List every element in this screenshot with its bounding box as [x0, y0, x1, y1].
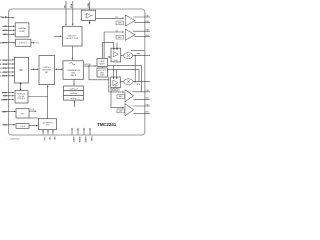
wire CPI — [3, 25, 14, 27]
wire bus to protect — [89, 66, 109, 80]
svg-text:SIN CAL: SIN CAL — [85, 63, 92, 66]
svg-text:1.8V LDO: 1.8V LDO — [19, 43, 28, 45]
wire OA2 out high — [133, 30, 150, 32]
svg-text:SPI: SPI — [19, 70, 23, 72]
wire prot to bridge B — [108, 70, 140, 82]
wire CPO — [3, 29, 14, 31]
comparator CMP A — [111, 48, 121, 62]
wire CLK out — [29, 125, 36, 127]
wire SPI to control registers (bidirectional) — [31, 68, 37, 70]
wire OSC out — [29, 110, 35, 112]
sine symbol — [70, 63, 76, 66]
svg-text:CMP: CMP — [114, 86, 118, 88]
wire chop bus down 2 — [111, 88, 122, 108]
wire OA1 out high — [133, 16, 150, 18]
wire node into UVLO — [54, 35, 60, 37]
svg-text:CMP: CMP — [114, 60, 118, 62]
svg-text:CONTROL: CONTROL — [17, 98, 25, 100]
wire cmp to mult B — [120, 81, 124, 83]
svg-text:SEL: SEL — [53, 137, 55, 142]
svg-text:DAC: DAC — [71, 72, 76, 75]
svg-text:VSA UVLO: VSA UVLO — [68, 34, 77, 37]
svg-text:CLK IN: CLK IN — [20, 126, 26, 128]
gate driver box B2 — [117, 109, 125, 113]
chopper block — [97, 59, 108, 67]
driver amp B2 — [125, 104, 134, 116]
wire VSA top pin — [72, 1, 74, 24]
gate driver box A2 — [116, 35, 124, 39]
wire control to sine table (bidirectional) — [56, 69, 62, 71]
wire 5VOUT — [2, 42, 14, 44]
wire chop to cmp A — [108, 56, 110, 58]
wire sense out B — [133, 81, 150, 83]
wire enable cmp down stub — [89, 20, 91, 24]
driver amp B1 — [125, 90, 134, 102]
wire SPI to interface (bidirectional vertical) — [20, 84, 22, 89]
svg-text:BN1: BN1 — [146, 98, 150, 100]
svg-text:GNDA: GNDA — [78, 137, 81, 144]
multiplier B — [124, 79, 133, 85]
wire DCEN — [3, 99, 13, 101]
SPI interface block — [15, 57, 29, 83]
svg-text:VCC: VCC — [36, 43, 40, 45]
sine wave table block — [63, 61, 84, 80]
enable comparator U1 — [81, 10, 95, 20]
wire VCP — [3, 33, 14, 35]
UVLO comparator block — [63, 26, 83, 46]
regulator 1.8V LDO — [16, 39, 31, 46]
svg-text:OB1: OB1 — [146, 90, 150, 92]
svg-text:fCLK: fCLK — [30, 109, 35, 111]
wire DRV_ENN top pin — [89, 2, 91, 11]
svg-text:BRB: BRB — [137, 84, 141, 86]
wire CSN — [3, 59, 13, 61]
oscillator block — [16, 109, 29, 118]
svg-text:SELECT CMP: SELECT CMP — [66, 38, 78, 40]
svg-text:GND: GND — [90, 137, 92, 142]
wire chop to bridge A — [108, 66, 142, 92]
wire sine to rows box — [73, 79, 75, 83]
svg-text:OSC: OSC — [20, 113, 25, 115]
wire OB2 out low — [134, 112, 151, 114]
svg-text:TST: TST — [48, 137, 50, 142]
wire STEP — [3, 92, 13, 94]
sample hold B2 rect — [111, 88, 119, 92]
svg-text:BM1: BM1 — [146, 21, 150, 23]
svg-text:OA2: OA2 — [146, 29, 150, 32]
pin CLK bottom 1 — [42, 132, 44, 135]
gate driver box B1 — [117, 95, 125, 99]
wire LDO output — [31, 42, 33, 44]
protection diagnostics block — [97, 68, 108, 77]
wire cmp to mult A — [121, 55, 124, 57]
svg-text:COMPARATOR: COMPARATOR — [67, 69, 81, 72]
wire enable cmp to driver A1 — [96, 17, 123, 19]
svg-text:Gate: Gate — [115, 29, 118, 32]
wire sense out A — [133, 55, 150, 57]
wire VCC_IO — [2, 17, 13, 19]
svg-text:OA1: OA1 — [146, 14, 150, 17]
svg-text:GNDP: GNDP — [72, 137, 74, 144]
gate driver box A1 — [116, 21, 124, 25]
wire bus to driver A2 — [104, 32, 122, 59]
svg-text:BRA: BRA — [137, 53, 141, 56]
wire OA2 out low — [135, 36, 151, 38]
wire sense bus vertical — [134, 56, 136, 82]
svg-text:OB2: OB2 — [146, 104, 150, 106]
svg-text:GNDD: GNDD — [84, 137, 86, 144]
wire OB1 out low — [134, 98, 151, 100]
svg-text:TMC2241: TMC2241 — [97, 122, 117, 127]
control register set block — [39, 56, 55, 85]
wire DIAG — [3, 75, 13, 77]
svg-text:CLK: CLK — [43, 137, 45, 142]
row coolStep — [64, 91, 84, 96]
row dcStep — [64, 95, 84, 100]
comparator DAC B — [111, 77, 121, 88]
svg-text:BN2: BN2 — [146, 112, 150, 114]
pin GNDD bottom — [83, 130, 85, 135]
wire phase A sense top — [131, 49, 144, 51]
wire DIR — [3, 95, 13, 97]
svg-text:DIAG: DIAG — [100, 74, 105, 77]
feature rows block — [64, 86, 84, 91]
wire up into rows box — [73, 102, 75, 107]
svg-text:Gate: Gate — [115, 16, 118, 19]
svg-text:coolStep: coolStep — [70, 92, 77, 95]
svg-text:TABLE: TABLE — [70, 74, 77, 77]
svg-text:BM2: BM2 — [146, 35, 150, 37]
wire SH stubs A — [102, 43, 117, 59]
wire SCK — [3, 63, 13, 65]
svg-text:stallGuard: stallGuard — [69, 88, 78, 91]
chip outline TMC2241 — [9, 9, 145, 135]
wire interface to control bottom — [28, 87, 48, 119]
charge pump CP — [15, 23, 29, 37]
wire stubs into cmp B — [114, 66, 117, 77]
pin bottom 3 — [52, 132, 54, 135]
wire chop to protect — [101, 67, 103, 69]
wire OA1 out low — [135, 22, 151, 24]
wire chop bus down 1 — [109, 77, 122, 92]
wire CLK in — [3, 124, 14, 126]
wire VREF — [3, 111, 14, 113]
svg-text:* = trademark: * = trademark — [8, 137, 19, 140]
pin bottom 2 — [47, 132, 49, 135]
svg-text:MODE: MODE — [99, 63, 105, 65]
wire VS top pin — [65, 1, 67, 24]
wire osc to clksel low — [29, 117, 38, 119]
clock input block — [16, 124, 29, 129]
pin GNDA bottom — [77, 130, 79, 135]
pin GNDP bottom — [71, 130, 73, 135]
multiplier A — [124, 53, 133, 59]
clock select block — [39, 119, 57, 130]
wire OB2 out high — [133, 105, 151, 107]
driver amp A2 — [125, 29, 135, 40]
svg-text:dcStep: dcStep — [71, 97, 77, 100]
svg-text:CHARGE: CHARGE — [18, 27, 27, 30]
junction dot — [88, 65, 89, 66]
wire UVLO to sine table — [71, 46, 73, 58]
wire OB1 out high — [133, 91, 151, 93]
wire SDI — [3, 67, 13, 69]
wire sine table to chopper — [84, 65, 95, 67]
svg-text:PUMP: PUMP — [19, 31, 25, 33]
driver amp A1 — [125, 15, 135, 26]
wire SDO — [3, 71, 13, 73]
pin DIE bottom — [89, 130, 91, 135]
step dir interface block — [15, 90, 28, 103]
